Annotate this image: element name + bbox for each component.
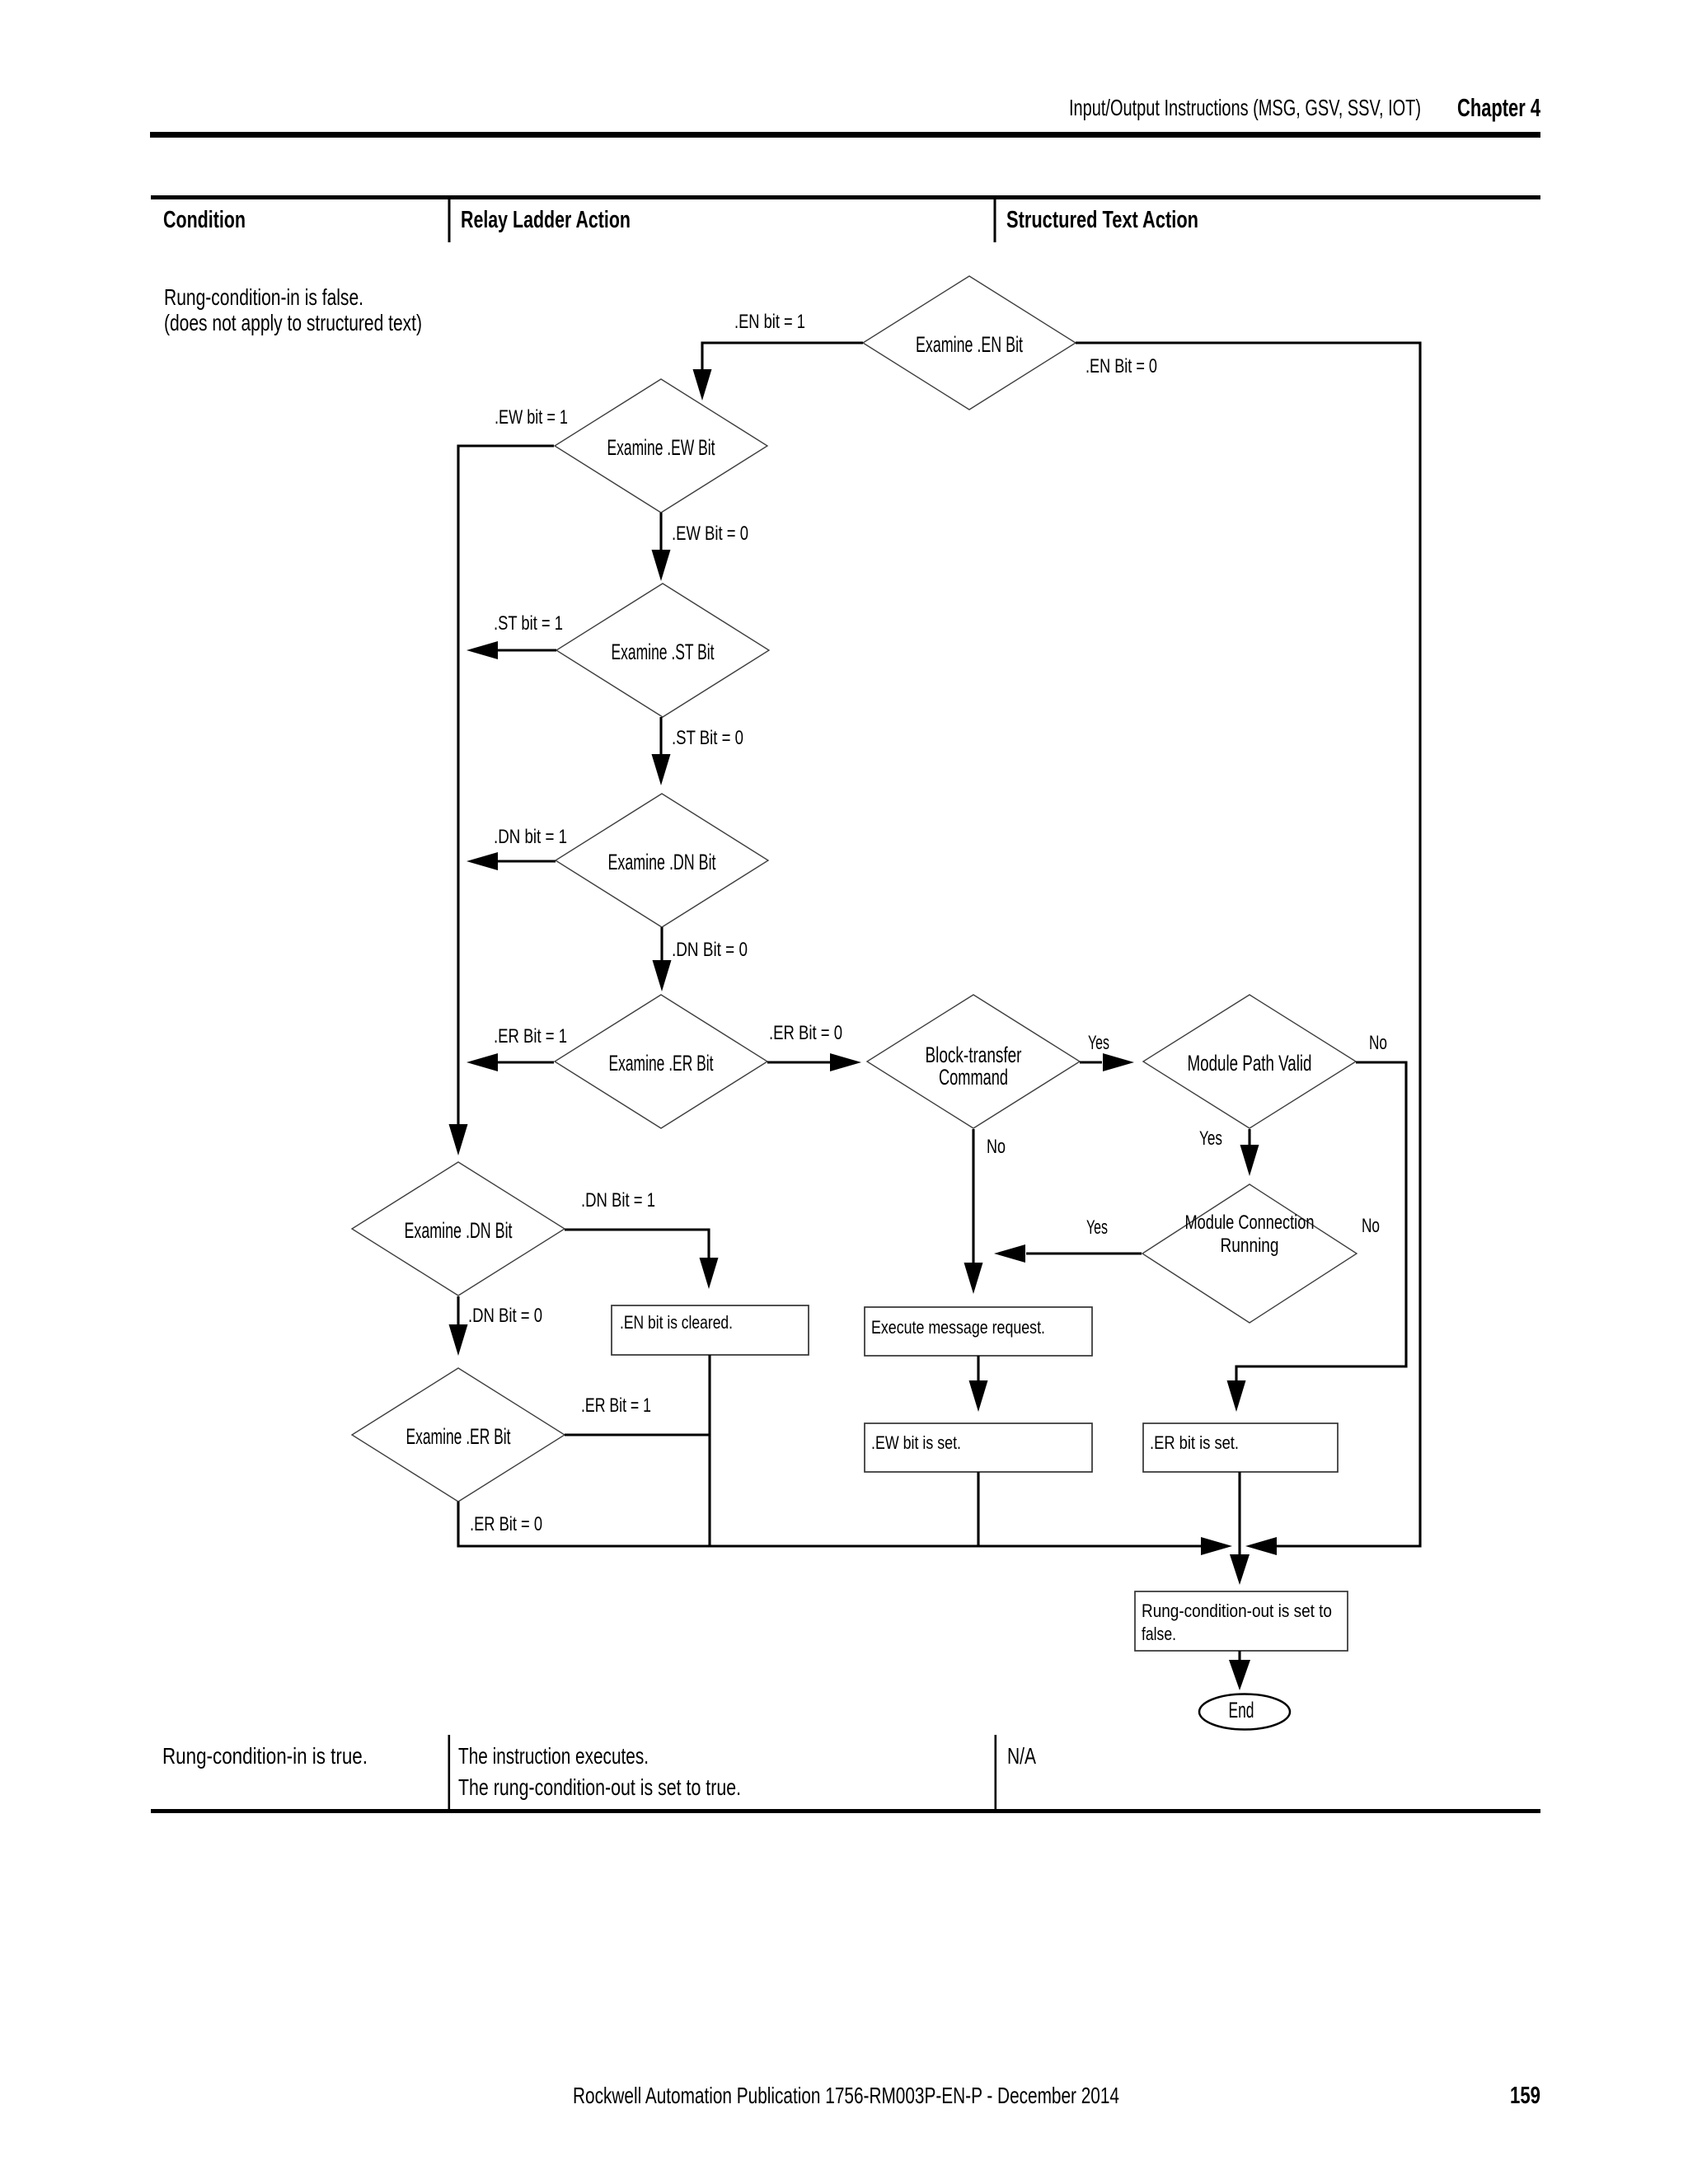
svg-text:.EW bit = 1: .EW bit = 1 <box>495 406 568 429</box>
svg-text:.DN Bit = 0: .DN Bit = 0 <box>468 1305 542 1327</box>
svg-text:Rockwell Automation Publicatio: Rockwell Automation Publication 1756-RM0… <box>573 2083 1119 2108</box>
svg-text:false.: false. <box>1142 1624 1176 1644</box>
svg-text:No: No <box>1369 1032 1387 1054</box>
svg-text:Yes: Yes <box>1088 1032 1109 1054</box>
svg-text:Running: Running <box>1221 1235 1279 1257</box>
svg-text:N/A: N/A <box>1007 1743 1036 1769</box>
svg-text:Execute message request.: Execute message request. <box>871 1317 1045 1338</box>
svg-text:Examine .ER Bit: Examine .ER Bit <box>406 1424 511 1449</box>
svg-text:No: No <box>987 1136 1006 1158</box>
svg-text:.ER Bit = 0: .ER Bit = 0 <box>769 1022 842 1044</box>
svg-text:.EN bit = 1: .EN bit = 1 <box>734 311 805 333</box>
svg-text:.DN Bit = 1: .DN Bit = 1 <box>581 1189 655 1212</box>
svg-text:.DN bit = 1: .DN bit = 1 <box>494 826 567 848</box>
svg-text:Examine .DN Bit: Examine .DN Bit <box>608 850 716 874</box>
svg-text:.DN Bit = 0: .DN Bit = 0 <box>672 939 748 961</box>
svg-text:(does not apply to structured: (does not apply to structured text) <box>164 310 422 335</box>
svg-text:.ST Bit = 0: .ST Bit = 0 <box>672 727 743 749</box>
svg-text:Yes: Yes <box>1086 1216 1108 1239</box>
svg-text:Examine .ER Bit: Examine .ER Bit <box>609 1051 714 1076</box>
svg-text:Structured Text Action: Structured Text Action <box>1006 207 1198 233</box>
svg-text:.EW bit is set.: .EW bit is set. <box>871 1432 961 1453</box>
svg-text:.ST bit = 1: .ST bit = 1 <box>494 612 563 635</box>
svg-text:Chapter 4: Chapter 4 <box>1457 93 1541 122</box>
svg-text:Command: Command <box>939 1065 1008 1090</box>
svg-text:The instruction executes.: The instruction executes. <box>458 1743 649 1769</box>
svg-text:Examine .EW Bit: Examine .EW Bit <box>607 435 715 460</box>
svg-text:The rung-condition-out is set: The rung-condition-out is set to true. <box>458 1774 741 1800</box>
svg-text:.EN bit is cleared.: .EN bit is cleared. <box>620 1312 733 1333</box>
svg-text:Module Path Valid: Module Path Valid <box>1188 1051 1312 1076</box>
svg-text:Rung-condition-out is set to: Rung-condition-out is set to <box>1142 1601 1332 1621</box>
svg-text:Rung-condition-in is true.: Rung-condition-in is true. <box>162 1743 368 1769</box>
svg-text:Examine .DN Bit: Examine .DN Bit <box>405 1218 513 1243</box>
svg-text:.ER bit is set.: .ER bit is set. <box>1150 1432 1239 1453</box>
svg-text:.ER Bit = 1: .ER Bit = 1 <box>581 1394 651 1417</box>
svg-text:Condition: Condition <box>163 207 246 233</box>
svg-text:Examine .EN Bit: Examine .EN Bit <box>916 332 1023 357</box>
svg-text:.EN Bit = 0: .EN Bit = 0 <box>1085 355 1157 377</box>
svg-text:End: End <box>1229 1698 1254 1722</box>
svg-text:159: 159 <box>1510 2083 1540 2109</box>
svg-text:Module Connection: Module Connection <box>1185 1212 1315 1234</box>
svg-text:Examine .ST Bit: Examine .ST Bit <box>612 640 715 664</box>
svg-text:No: No <box>1362 1215 1380 1237</box>
svg-text:.EW Bit = 0: .EW Bit = 0 <box>672 523 748 545</box>
svg-text:Block-transfer: Block-transfer <box>926 1043 1022 1067</box>
svg-text:.ER Bit = 1: .ER Bit = 1 <box>494 1025 567 1047</box>
svg-text:.ER Bit = 0: .ER Bit = 0 <box>470 1513 542 1535</box>
svg-text:Yes: Yes <box>1199 1127 1222 1150</box>
svg-text:Input/Output Instructions (MSG: Input/Output Instructions (MSG, GSV, SSV… <box>1069 95 1421 120</box>
svg-text:Rung-condition-in is false.: Rung-condition-in is false. <box>164 284 363 310</box>
svg-text:Relay Ladder Action: Relay Ladder Action <box>461 207 631 233</box>
